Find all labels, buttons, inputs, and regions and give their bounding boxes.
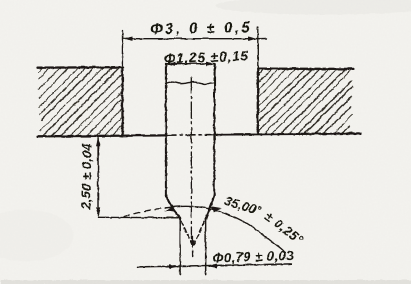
extension line left (pin side): [164, 63, 166, 82]
arrowhead angle arc left: [164, 206, 174, 211]
arrowhead dim 1,25 right: [206, 61, 215, 65]
die block bottom surface hidden behind pin (dash-dot): [167, 133, 214, 136]
pin break line (wavy top): [165, 82, 214, 84]
dimension line diameter 1,25: [165, 62, 214, 64]
die block left: hatching: [38, 67, 122, 136]
arrowhead dim 0,79 left (points right): [169, 264, 180, 268]
pin taper right flank: [205, 195, 214, 219]
pin tip right side / extension line: [204, 219, 206, 275]
pin taper left flank: [165, 195, 179, 218]
extension line left (hole edge): [121, 30, 123, 67]
die block right: hatching: [257, 68, 352, 134]
arrowhead dim 2,50 top: [96, 137, 100, 146]
arrowhead dim 2,50 bottom: [95, 207, 99, 216]
extension line right (pin side): [213, 63, 215, 82]
scan smudge top right: [215, 0, 411, 14]
die block left: top surface line: [37, 65, 122, 68]
die block bottom surface line left of pin: [37, 134, 165, 137]
angle dimension arc left tail (dashed): [124, 207, 166, 216]
pin body left side: [164, 63, 166, 195]
die block right: top surface line: [257, 67, 353, 70]
svg-text:Φ0,79 ± 0,03: Φ0,79 ± 0,03: [212, 247, 294, 265]
arrowhead dim 3,0 left: [123, 36, 133, 40]
arrowhead dim 1,25 left: [165, 61, 174, 65]
hidden cone right flank (dashed): [193, 221, 204, 246]
reference line at tip shoulder level: [98, 216, 180, 219]
arrowhead cone axis (down): [190, 240, 194, 248]
hidden cone left flank (dashed): [181, 221, 192, 246]
arrowhead dim 3,0 right: [248, 36, 257, 40]
vertical dimension line 2,50: [97, 137, 99, 215]
dimension line diameter 3,0: [123, 37, 266, 39]
hole right wall: [256, 68, 258, 133]
extension line right (hole edge): [256, 27, 258, 68]
arrowhead angle arc right: [210, 206, 221, 211]
svg-text:2,50 ± 0,04: 2,50 ± 0,04: [78, 142, 94, 210]
arrowhead dim 0,79 right (points left): [205, 263, 216, 267]
pin centerline (dash-dot): [190, 77, 192, 239]
cone axis arrow shaft: [191, 236, 193, 240]
hole left wall: [121, 67, 123, 136]
die block bottom surface line right of pin: [214, 133, 360, 134]
cone axis tail dash below arrow: [191, 251, 193, 257]
pin body right side: [213, 63, 215, 195]
pin tip left side / extension line: [179, 219, 181, 275]
svg-text:Φ3, 0 ± 0,5: Φ3, 0 ± 0,5: [149, 19, 251, 38]
svg-text:Φ1,25 ±0,15: Φ1,25 ±0,15: [163, 48, 249, 67]
scan smudge mid left: [0, 209, 73, 261]
scan smudge bottom edge: [0, 280, 411, 284]
bottom dimension line diameter 0,79: [137, 263, 291, 266]
angle dimension arc: [166, 206, 284, 251]
